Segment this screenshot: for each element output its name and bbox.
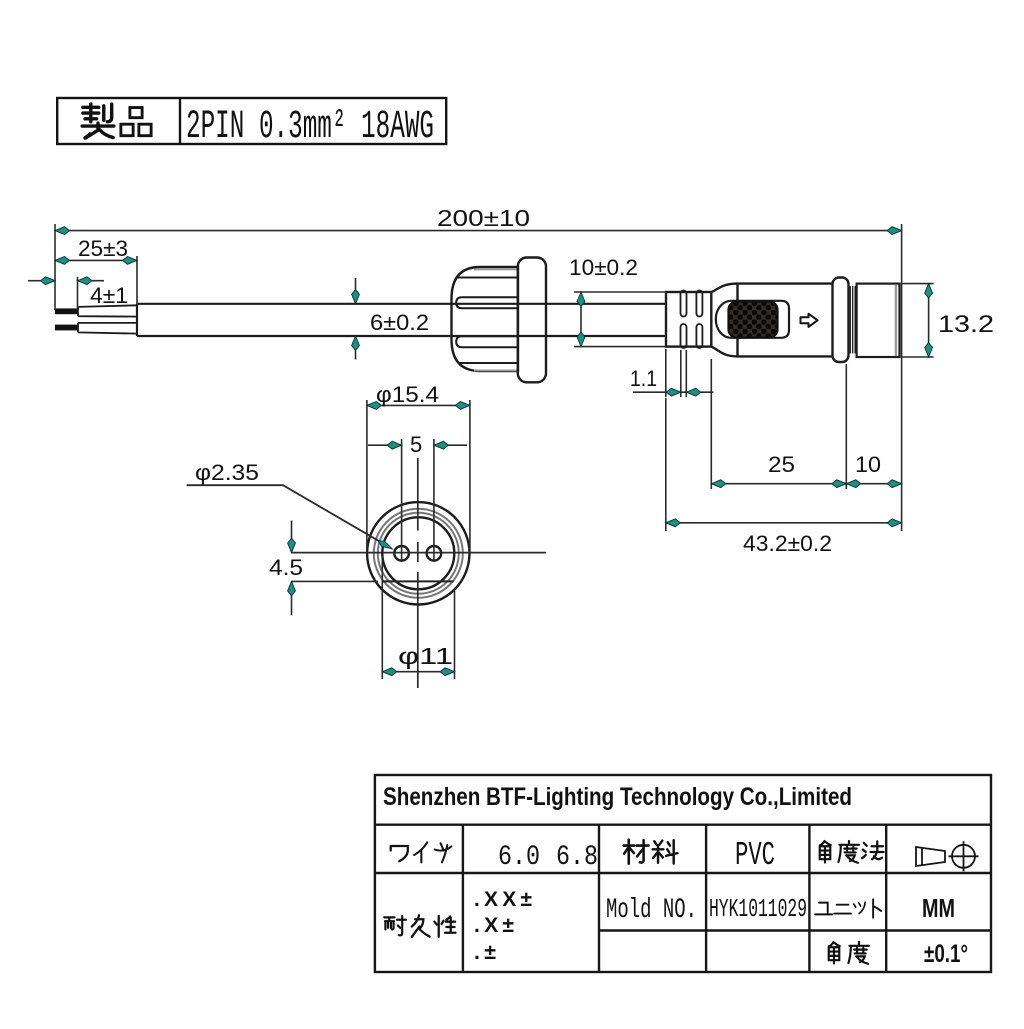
knurl line grey top <box>474 269 518 271</box>
svg-text:PVC: PVC <box>735 837 775 874</box>
end view phi11 circle <box>382 517 454 589</box>
rib slot lower 1 <box>681 324 687 348</box>
svg-text:φ11: φ11 <box>398 643 453 669</box>
svg-text:200±10: 200±10 <box>437 205 530 231</box>
latch button hatched <box>729 302 778 338</box>
button bezel <box>716 301 789 338</box>
svg-text:5: 5 <box>410 432 422 457</box>
projection symbol circle <box>949 841 979 871</box>
pin right <box>427 546 442 561</box>
svg-text:43.2±0.2: 43.2±0.2 <box>743 531 832 556</box>
svg-text:MM: MM <box>922 893 955 923</box>
svg-text:Shenzhen BTF-Lighting Technolo: Shenzhen BTF-Lighting Technology Co.,Lim… <box>383 783 852 811</box>
gland nut flange <box>518 258 546 383</box>
svg-text:25: 25 <box>768 452 795 477</box>
svg-text:4.5: 4.5 <box>269 555 303 580</box>
svg-text:Mold NO.: Mold NO. <box>606 895 697 926</box>
label 製品 <box>82 104 114 138</box>
wire black tip 1 <box>55 308 78 314</box>
svg-text:φ2.35: φ2.35 <box>195 460 259 485</box>
rib slot upper 2 <box>696 291 702 317</box>
svg-text:6±0.2: 6±0.2 <box>370 310 429 335</box>
knurl line dark top <box>458 277 518 279</box>
barrel end face grey <box>895 285 897 356</box>
svg-text:6.0: 6.0 <box>498 842 540 873</box>
dimension 10 (barrel) <box>846 483 901 485</box>
dimension 4.5 <box>291 521 378 616</box>
strain relief ribbed tube <box>666 292 711 347</box>
connector body <box>738 284 833 357</box>
svg-text:HYK1011029: HYK1011029 <box>709 894 807 924</box>
svg-text:4±1: 4±1 <box>90 283 128 308</box>
end barrel <box>857 284 900 357</box>
direction arrow symbol <box>801 314 818 327</box>
dimension 25 (body) <box>711 364 846 489</box>
svg-text:1.1: 1.1 <box>630 366 657 391</box>
svg-text:25±3: 25±3 <box>78 236 128 261</box>
vertical centerline <box>417 458 419 688</box>
svg-text:10±0.2: 10±0.2 <box>569 255 638 280</box>
label 耐久性 <box>384 916 406 935</box>
cable jacket <box>137 304 666 336</box>
label phi2.35 leader <box>187 485 390 547</box>
dimension 13.2 <box>902 284 934 357</box>
svg-text:13.2: 13.2 <box>938 311 994 338</box>
rib slot lower 2 <box>696 324 702 348</box>
dimension 4±1 <box>28 277 104 308</box>
title box <box>57 98 446 144</box>
svg-text:. ±: . ± <box>474 941 496 964</box>
dimension 10±0.2 <box>574 292 666 347</box>
dimension 43.2±0.2 <box>666 398 902 531</box>
dimension phi11 <box>382 556 454 679</box>
svg-text:±0.1°: ±0.1° <box>924 940 968 968</box>
label 材料 <box>624 840 649 864</box>
horizontal centerline <box>291 552 546 554</box>
knurl slot A <box>456 297 518 308</box>
svg-text:. X X ±: . X X ± <box>474 888 532 911</box>
connector body transition <box>711 284 737 357</box>
svg-text:2PIN 0.3mm² 18AWG: 2PIN 0.3mm² 18AWG <box>186 105 434 150</box>
wire black tip 2 <box>55 325 78 331</box>
svg-text:. X ±: . X ± <box>474 914 514 937</box>
dimension 25±3 <box>55 256 137 304</box>
cable gland nut knurled dome <box>452 267 519 371</box>
label 角度法 <box>820 841 831 863</box>
svg-text:6.8: 6.8 <box>556 842 598 873</box>
projection symbol frustum <box>916 847 945 866</box>
pin left <box>394 546 409 561</box>
label 角度 <box>829 942 840 964</box>
wire 2 <box>78 323 137 334</box>
dimension 5 (pin spacing) <box>368 439 467 562</box>
dimension 200±10 <box>55 224 902 531</box>
rib slot upper 1 <box>681 291 687 317</box>
dimension phi15.4 <box>367 400 470 553</box>
end view ring 2 <box>374 509 463 598</box>
svg-text:φ15.4: φ15.4 <box>376 382 439 407</box>
end view ring 3 <box>378 513 459 594</box>
knurl slot B <box>456 336 518 347</box>
wire 1 <box>78 305 137 316</box>
knurl line dark bottom <box>458 362 518 364</box>
gasket lines <box>850 286 855 354</box>
svg-text:10: 10 <box>855 452 881 477</box>
knurl line grey bottom <box>474 370 518 372</box>
dimension 1.1 <box>633 349 714 489</box>
label ワイヤ <box>391 846 408 861</box>
key flat chord <box>383 580 454 582</box>
label ユニット <box>815 903 832 915</box>
title block table grid <box>375 775 991 972</box>
collar ring <box>833 278 849 363</box>
dimension 6±0.2 <box>355 278 357 360</box>
end view outer circle <box>367 502 469 604</box>
